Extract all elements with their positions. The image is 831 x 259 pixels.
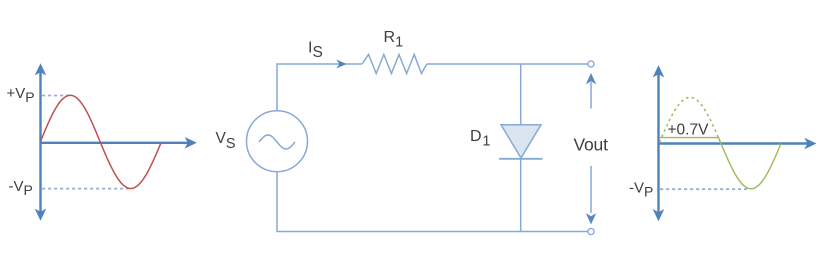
wire diode branch top [520, 64, 522, 125]
dashed level line -Vp output [660, 188, 747, 190]
output graph horizontal axis [659, 138, 817, 150]
svg-text:VS: VS [216, 130, 236, 152]
input graph horizontal axis [41, 137, 197, 149]
input sine wave [41, 95, 161, 188]
clipped output level line [660, 137, 718, 139]
original input peak dotted curve [660, 97, 722, 143]
resistor R1 [362, 55, 427, 74]
diode D1 [499, 125, 543, 159]
current arrow Is [336, 60, 346, 69]
wire resistor to output node [427, 63, 588, 65]
svg-text:-VP: -VP [629, 180, 653, 200]
clipped output waveform [718, 137, 781, 189]
wire source bottom to output return [277, 172, 588, 232]
output graph vertical axis [653, 65, 665, 221]
input graph vertical axis [35, 63, 47, 221]
svg-text:+0.7V: +0.7V [668, 122, 710, 139]
dashed level line +Vp [42, 95, 70, 97]
wire source top to resistor [277, 64, 362, 111]
svg-text:+VP: +VP [7, 85, 35, 105]
wire diode branch bottom [520, 159, 522, 232]
Vout up arrow [586, 73, 596, 109]
Vout down arrow [586, 166, 596, 225]
dashed level line -Vp [42, 188, 128, 190]
svg-text:R1: R1 [384, 29, 404, 51]
svg-text:IS: IS [308, 40, 323, 61]
output terminal top [588, 61, 594, 67]
svg-text:Vout: Vout [574, 135, 609, 155]
voltage source VS [247, 111, 308, 172]
svg-text:-VP: -VP [9, 178, 33, 198]
svg-text:D1: D1 [470, 128, 490, 150]
output terminal bottom [588, 228, 594, 234]
